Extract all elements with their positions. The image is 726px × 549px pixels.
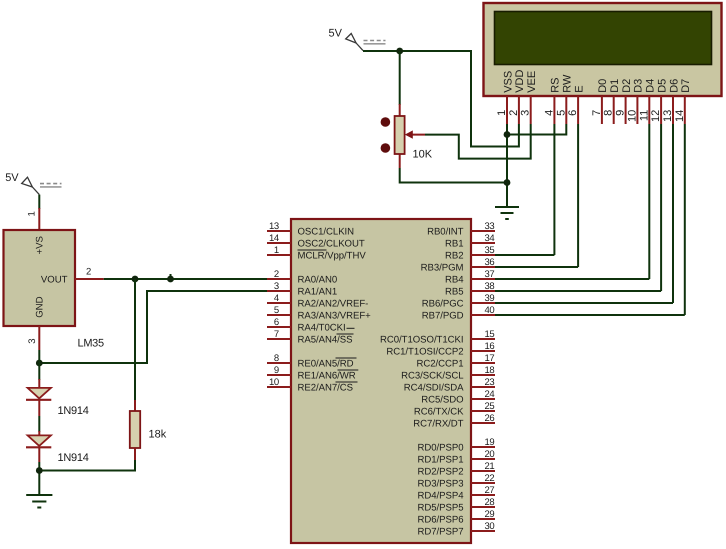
svg-text:D6: D6 bbox=[668, 79, 680, 93]
svg-text:2: 2 bbox=[86, 267, 91, 278]
svg-text:4: 4 bbox=[274, 293, 279, 304]
svg-text:D0: D0 bbox=[597, 79, 609, 93]
U1 left pin stubs bbox=[267, 231, 291, 387]
svg-text:RD2/PSP2: RD2/PSP2 bbox=[418, 467, 464, 478]
svg-text:9: 9 bbox=[615, 110, 627, 116]
svg-text:7: 7 bbox=[274, 329, 279, 340]
svg-text:30: 30 bbox=[485, 521, 495, 532]
svg-text:RB6/PGC: RB6/PGC bbox=[422, 299, 464, 310]
resistor R1 18k bbox=[130, 400, 167, 460]
LM35 pin 3 stub bbox=[38, 326, 40, 350]
wire pot top lead bbox=[399, 51, 401, 105]
svg-text:16: 16 bbox=[485, 341, 495, 352]
svg-text:35: 35 bbox=[485, 245, 495, 256]
wire D2 to ground bbox=[38, 462, 40, 495]
svg-text:14: 14 bbox=[269, 233, 279, 244]
wire RB6 to LCD D6 bbox=[495, 302, 673, 304]
svg-text:1: 1 bbox=[27, 211, 38, 216]
svg-text:21: 21 bbox=[485, 461, 495, 472]
svg-text:10: 10 bbox=[626, 110, 638, 122]
microcontroller U1 PIC16F877A body bbox=[291, 219, 471, 543]
svg-text:29: 29 bbox=[485, 509, 495, 520]
wire pot wiper to LCD VEE bbox=[425, 124, 531, 159]
wire RB3 to LCD E bbox=[495, 266, 578, 268]
wire GND node to D1 bbox=[38, 363, 40, 380]
wire LCD D6 down bbox=[672, 124, 674, 303]
svg-text:RD1/PSP1: RD1/PSP1 bbox=[418, 455, 464, 466]
temperature sensor U2 LM35 body bbox=[4, 230, 76, 326]
svg-text:D3: D3 bbox=[633, 79, 645, 93]
svg-text:OSC2/CLKOUT: OSC2/CLKOUT bbox=[298, 239, 365, 250]
svg-text:RB4: RB4 bbox=[445, 275, 464, 286]
U1 right pin labels bbox=[380, 227, 464, 538]
svg-text:2: 2 bbox=[508, 110, 520, 116]
svg-text:RC0/T1OSO/T1CKI: RC0/T1OSO/T1CKI bbox=[380, 335, 463, 346]
svg-text:RE2/AN7/CS: RE2/AN7/CS bbox=[298, 383, 353, 394]
node 5V/pot junction bbox=[396, 48, 403, 55]
svg-text:6: 6 bbox=[274, 317, 279, 328]
LM35 pin 1 stub bbox=[38, 208, 40, 230]
svg-text:E: E bbox=[573, 85, 585, 92]
wire VOUT to RA0 bbox=[104, 278, 267, 280]
svg-text:1N914: 1N914 bbox=[58, 452, 89, 464]
svg-text:+VS: +VS bbox=[35, 236, 46, 254]
wire RB7 to LCD D7 bbox=[495, 314, 685, 316]
svg-text:40: 40 bbox=[485, 305, 495, 316]
svg-text:1: 1 bbox=[274, 245, 279, 256]
svg-text:3: 3 bbox=[27, 339, 38, 344]
svg-text:RC2/CCP1: RC2/CCP1 bbox=[416, 359, 463, 370]
svg-text:GND: GND bbox=[35, 296, 46, 317]
svg-text:27: 27 bbox=[485, 485, 495, 496]
svg-text:5V: 5V bbox=[5, 172, 19, 184]
node VOUT stub junction bbox=[167, 274, 174, 282]
svg-text:34: 34 bbox=[485, 233, 495, 244]
wire VSS junction to RW bbox=[507, 124, 566, 135]
wire 18k bottom to ground node bbox=[39, 460, 135, 471]
svg-text:12: 12 bbox=[650, 110, 662, 122]
power symbol 5V (top, pot/LCD supply) bbox=[329, 28, 386, 51]
svg-text:3: 3 bbox=[520, 110, 532, 116]
svg-text:5V: 5V bbox=[329, 28, 343, 40]
wire RB2 to LCD RS bbox=[495, 254, 554, 256]
U1 left pin labels bbox=[298, 227, 372, 394]
svg-text:RD5/PSP5: RD5/PSP5 bbox=[418, 503, 464, 514]
svg-text:9: 9 bbox=[274, 365, 279, 376]
svg-text:RC1/T1OSI/CCP2: RC1/T1OSI/CCP2 bbox=[386, 347, 463, 358]
wire LCD E down bbox=[577, 124, 579, 267]
svg-text:4: 4 bbox=[543, 110, 555, 116]
svg-text:39: 39 bbox=[485, 293, 495, 304]
wire RB5 to LCD D5 bbox=[495, 290, 661, 292]
ground (LCD/pot) bbox=[495, 207, 519, 219]
potentiometer RV1 10K bbox=[381, 104, 433, 168]
svg-text:RA2/AN2/VREF-: RA2/AN2/VREF- bbox=[298, 299, 369, 310]
wire 5V to LM35 pin 1 bbox=[38, 195, 40, 209]
svg-text:RW: RW bbox=[562, 74, 574, 93]
svg-text:13: 13 bbox=[269, 221, 279, 232]
wire LCD D5 down bbox=[660, 124, 662, 291]
LCD module LM016L body bbox=[484, 3, 722, 96]
svg-text:RA0/AN0: RA0/AN0 bbox=[298, 275, 338, 286]
PIC pin 3 stub (RA1) bbox=[267, 290, 291, 292]
svg-text:VSS: VSS bbox=[502, 71, 514, 93]
svg-text:RB2: RB2 bbox=[445, 251, 464, 262]
ground (LM35 circuit) bbox=[26, 495, 52, 508]
svg-text:5: 5 bbox=[555, 110, 567, 116]
wire LCD D7 down bbox=[684, 124, 686, 315]
svg-text:RC6/TX/CK: RC6/TX/CK bbox=[414, 407, 464, 418]
svg-text:RD6/PSP6: RD6/PSP6 bbox=[418, 515, 464, 526]
svg-text:D7: D7 bbox=[680, 79, 692, 93]
svg-text:13: 13 bbox=[662, 110, 674, 122]
svg-text:D5: D5 bbox=[656, 79, 668, 93]
svg-text:17: 17 bbox=[485, 353, 495, 364]
svg-text:10: 10 bbox=[269, 377, 279, 388]
svg-text:D1: D1 bbox=[609, 79, 621, 93]
svg-text:RC3/SCK/SCL: RC3/SCK/SCL bbox=[401, 371, 464, 382]
svg-text:RC5/SDO: RC5/SDO bbox=[421, 395, 463, 406]
wire LM35 pin3 to GND node bbox=[38, 350, 40, 363]
svg-text:26: 26 bbox=[485, 413, 495, 424]
svg-text:20: 20 bbox=[485, 449, 495, 460]
svg-text:RA1/AN1: RA1/AN1 bbox=[298, 287, 338, 298]
node VOUT/18k junction bbox=[132, 276, 139, 283]
U1 active-low overlines bbox=[298, 250, 359, 382]
svg-text:11: 11 bbox=[638, 110, 650, 121]
svg-text:5: 5 bbox=[274, 305, 279, 316]
svg-text:RD3/PSP3: RD3/PSP3 bbox=[418, 479, 464, 490]
svg-text:RD4/PSP4: RD4/PSP4 bbox=[418, 491, 465, 502]
svg-text:RA5/AN4/SS: RA5/AN4/SS bbox=[298, 335, 353, 346]
svg-text:18: 18 bbox=[485, 365, 495, 376]
wire VSS to ground bbox=[506, 124, 508, 207]
wire 18k top lead from VOUT bbox=[134, 279, 136, 401]
node VSS junction 2 bbox=[504, 179, 511, 186]
svg-text:RE1/AN6/WR: RE1/AN6/WR bbox=[298, 371, 356, 382]
node VSS junction 1 bbox=[504, 131, 511, 138]
svg-text:8: 8 bbox=[274, 353, 279, 364]
svg-text:MCLR/Vpp/THV: MCLR/Vpp/THV bbox=[298, 251, 367, 262]
node LM35 GND junction bbox=[36, 360, 43, 367]
svg-text:RB5: RB5 bbox=[445, 287, 464, 298]
svg-text:37: 37 bbox=[485, 269, 495, 280]
wire D1 to D2 bbox=[38, 416, 40, 432]
svg-text:RC4/SDI/SDA: RC4/SDI/SDA bbox=[404, 383, 464, 394]
wire LM35 GND node to RA1 bbox=[39, 291, 267, 363]
wire LCD RS down bbox=[553, 124, 555, 255]
svg-text:VEE: VEE bbox=[526, 71, 538, 93]
svg-text:25: 25 bbox=[485, 401, 495, 412]
LCD pin numbers 1-14 bbox=[496, 110, 686, 122]
svg-text:7: 7 bbox=[591, 110, 603, 116]
U1 left pin numbers bbox=[269, 221, 279, 388]
U1 right pin stubs bbox=[471, 231, 495, 531]
svg-text:RA4/T0CKI: RA4/T0CKI bbox=[298, 323, 346, 334]
svg-text:10K: 10K bbox=[413, 149, 433, 161]
svg-text:18k: 18k bbox=[149, 429, 167, 441]
diode D1 1N914 bbox=[26, 379, 89, 417]
svg-text:15: 15 bbox=[485, 329, 495, 340]
svg-text:1N914: 1N914 bbox=[58, 405, 89, 417]
svg-text:D4: D4 bbox=[645, 79, 657, 93]
PIC pin 2 stub (RA0) bbox=[267, 278, 291, 280]
svg-text:VOUT: VOUT bbox=[41, 275, 68, 286]
wire pot bottom to ground rail bbox=[400, 168, 507, 183]
wire LCD D4 down bbox=[648, 124, 650, 279]
svg-text:19: 19 bbox=[485, 437, 495, 448]
LCD pin stubs 1-14 bbox=[507, 96, 685, 124]
diode D2 1N914 bbox=[26, 431, 89, 464]
svg-text:38: 38 bbox=[485, 281, 495, 292]
svg-text:14: 14 bbox=[674, 110, 686, 122]
power symbol 5V (left, LM35 supply) bbox=[5, 172, 61, 195]
svg-text:RB3/PGM: RB3/PGM bbox=[421, 263, 464, 274]
svg-text:RD7/PSP7: RD7/PSP7 bbox=[418, 527, 464, 538]
svg-text:1: 1 bbox=[496, 110, 508, 116]
LM35 pin 2 stub bbox=[75, 278, 104, 280]
svg-text:RS: RS bbox=[550, 78, 562, 93]
svg-text:RC7/RX/DT: RC7/RX/DT bbox=[413, 419, 463, 430]
LCD pin name labels bbox=[502, 70, 692, 93]
U1 right pin numbers bbox=[485, 221, 495, 532]
svg-text:OSC1/CLKIN: OSC1/CLKIN bbox=[298, 227, 355, 238]
svg-text:28: 28 bbox=[485, 497, 495, 508]
svg-text:8: 8 bbox=[603, 110, 615, 116]
svg-text:LM35: LM35 bbox=[78, 338, 104, 350]
node diode/18k ground junction bbox=[36, 467, 43, 474]
svg-text:36: 36 bbox=[485, 257, 495, 268]
svg-text:D2: D2 bbox=[621, 79, 633, 93]
svg-text:RA3/AN3/VREF+: RA3/AN3/VREF+ bbox=[298, 311, 372, 322]
svg-text:22: 22 bbox=[485, 473, 495, 484]
wire RB4 to LCD D4 bbox=[495, 278, 649, 280]
svg-text:24: 24 bbox=[485, 389, 495, 400]
svg-text:VDD: VDD bbox=[514, 70, 526, 93]
wire 5V rail to VDD bbox=[363, 51, 519, 147]
svg-text:RD0/PSP0: RD0/PSP0 bbox=[418, 443, 464, 454]
svg-text:6: 6 bbox=[567, 110, 579, 116]
svg-text:RB0/INT: RB0/INT bbox=[427, 227, 464, 238]
svg-text:RB1: RB1 bbox=[445, 239, 464, 250]
LCD screen bbox=[495, 12, 712, 65]
svg-text:RE0/AN5/RD: RE0/AN5/RD bbox=[298, 359, 354, 370]
svg-text:23: 23 bbox=[485, 377, 495, 388]
svg-text:33: 33 bbox=[485, 221, 495, 232]
svg-text:RB7/PGD: RB7/PGD bbox=[422, 311, 464, 322]
